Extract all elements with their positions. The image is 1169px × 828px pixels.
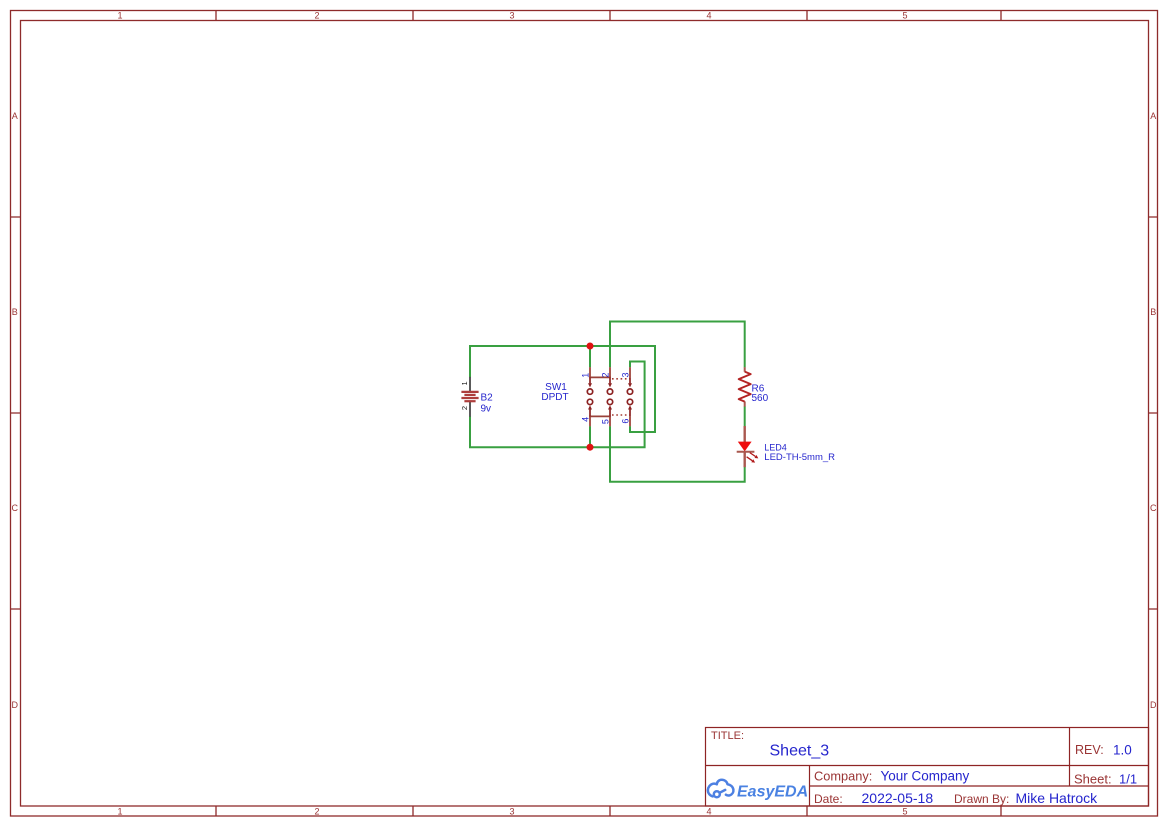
svg-text:3: 3 — [509, 11, 514, 21]
svg-text:Your Company: Your Company — [881, 769, 970, 784]
svg-text:2: 2 — [314, 11, 319, 21]
svg-text:1: 1 — [460, 381, 469, 385]
SW1 movable contacts column 2 — [607, 377, 612, 416]
junction node A (battery+) — [587, 343, 594, 350]
svg-text:B: B — [1150, 307, 1156, 317]
wire node A to SW1 pin 1 — [589, 346, 591, 367]
battery B2 pin 2 lead — [469, 401, 471, 416]
LED4 anode lead — [744, 426, 746, 442]
wire LED4 bottom to SW1 pin5 (big loop lower) — [610, 426, 745, 482]
svg-text:1: 1 — [117, 807, 122, 817]
svg-text:2: 2 — [460, 406, 469, 410]
LED4 cathode bar — [737, 451, 755, 453]
battery B2 pin 1 lead — [469, 377, 471, 392]
R6 pin leads — [744, 367, 746, 372]
SW1 pin 1 — [589, 367, 591, 377]
battery B2 — [461, 377, 478, 417]
svg-text:2022-05-18: 2022-05-18 — [862, 790, 934, 806]
svg-text:6: 6 — [621, 419, 631, 424]
svg-text:1/1: 1/1 — [1119, 772, 1137, 787]
svg-text:4: 4 — [706, 11, 711, 21]
resistor R6 — [739, 367, 751, 406]
svg-text:REV:: REV: — [1075, 743, 1104, 757]
svg-text:D: D — [12, 700, 19, 710]
svg-text:5: 5 — [902, 11, 907, 21]
svg-text:Sheet_3: Sheet_3 — [770, 743, 830, 760]
svg-text:Mike Hatrock: Mike Hatrock — [1016, 790, 1099, 806]
svg-text:1: 1 — [117, 11, 122, 21]
SW1 pin 5 — [609, 416, 611, 426]
wire node B to SW1 pin 4 — [589, 426, 591, 447]
svg-text:C: C — [12, 503, 19, 513]
SW1 pin 4 — [589, 416, 591, 426]
svg-text:4: 4 — [706, 807, 711, 817]
wire R6 bottom to LED4 top — [744, 406, 746, 426]
svg-text:Date:: Date: — [814, 792, 843, 806]
battery B2 plates — [461, 392, 478, 401]
svg-text:LED-TH-5mm_R: LED-TH-5mm_R — [764, 452, 835, 463]
SW1 bottom linkage bar solid — [589, 415, 611, 417]
svg-text:1: 1 — [580, 373, 590, 378]
svg-text:4: 4 — [580, 417, 590, 422]
svg-text:EasyEDA: EasyEDA — [737, 784, 808, 801]
SW1 top linkage bar solid — [589, 376, 611, 378]
svg-text:Drawn By:: Drawn By: — [954, 792, 1009, 806]
svg-text:D: D — [1150, 700, 1157, 710]
LED4 cathode lead — [744, 452, 746, 467]
SW1 pin 3 — [629, 367, 631, 377]
SW1 top linkage dotted — [612, 378, 630, 380]
junction node B (battery-) — [587, 444, 594, 451]
svg-text:A: A — [1150, 111, 1156, 121]
SW1 pin 6 — [629, 416, 631, 426]
svg-text:5: 5 — [902, 807, 907, 817]
wire SW1 pin2 to R6 top (big loop upper) — [610, 322, 745, 368]
svg-text:3: 3 — [509, 807, 514, 817]
svg-text:B: B — [12, 307, 18, 317]
SW1 movable contacts column 1 — [587, 377, 592, 416]
TITLE BLOCK — [706, 728, 1149, 807]
svg-text:Sheet:: Sheet: — [1074, 772, 1112, 787]
EasyEDA logo — [708, 780, 734, 797]
R6 zigzag body — [739, 372, 751, 402]
svg-text:560: 560 — [752, 393, 769, 404]
svg-text:TITLE:: TITLE: — [711, 730, 744, 742]
svg-text:5: 5 — [601, 419, 611, 424]
switch SW1 (DPDT) — [587, 367, 632, 426]
svg-text:A: A — [12, 111, 18, 121]
LED LED4 — [737, 426, 759, 467]
SW1 pin 2 — [609, 367, 611, 377]
svg-text:B2: B2 — [481, 393, 494, 404]
svg-text:3: 3 — [621, 372, 631, 377]
svg-text:C: C — [1150, 503, 1157, 513]
svg-text:Company:: Company: — [814, 769, 872, 784]
SW1 bottom linkage dotted — [612, 414, 630, 416]
wire battery positive to node A and pin6 loop — [470, 346, 655, 432]
LED4 emission arrows — [747, 453, 759, 463]
svg-text:DPDT: DPDT — [541, 392, 568, 403]
LED4 triangle — [738, 442, 752, 452]
svg-text:1.0: 1.0 — [1113, 743, 1132, 758]
wire battery negative to node B and small loop to pin3 — [470, 362, 645, 448]
svg-text:9v: 9v — [481, 404, 492, 415]
svg-text:2: 2 — [314, 807, 319, 817]
SW1 movable contacts column 3 — [627, 377, 632, 416]
svg-text:2: 2 — [601, 372, 611, 377]
